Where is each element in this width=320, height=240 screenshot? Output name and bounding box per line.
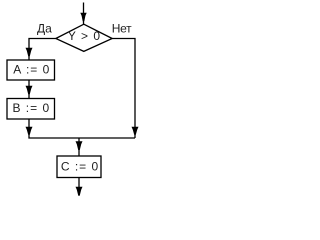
wire B to merge bbox=[29, 119, 135, 138]
arrowhead into box C bbox=[76, 141, 83, 150]
svg-text:Нет: Нет bbox=[112, 22, 132, 36]
arrowhead into diamond bbox=[80, 13, 86, 21]
arrowhead into box A bbox=[26, 48, 33, 56]
svg-text:C := 0: C := 0 bbox=[61, 160, 99, 174]
svg-text:Да: Да bbox=[37, 22, 52, 36]
arrowhead into box B bbox=[26, 86, 33, 94]
arrowhead left merge bbox=[26, 127, 33, 135]
process box C bbox=[57, 156, 101, 178]
wire A to B bbox=[28, 80, 30, 99]
wire Net branch bbox=[112, 39, 135, 139]
svg-text:Y > 0: Y > 0 bbox=[68, 29, 101, 43]
decision diamond Y > 0 bbox=[56, 24, 112, 51]
wire C to exit bbox=[78, 178, 80, 196]
arrowhead right merge bbox=[132, 127, 139, 135]
process box A bbox=[7, 60, 55, 80]
svg-text:B := 0: B := 0 bbox=[12, 101, 50, 115]
wire top entry bbox=[83, 3, 85, 25]
svg-text:A := 0: A := 0 bbox=[13, 63, 50, 77]
process box B bbox=[7, 99, 55, 120]
wire Da branch horizontal bbox=[29, 39, 56, 61]
wire merge to C bbox=[78, 138, 80, 156]
arrowhead exit bbox=[76, 187, 83, 196]
